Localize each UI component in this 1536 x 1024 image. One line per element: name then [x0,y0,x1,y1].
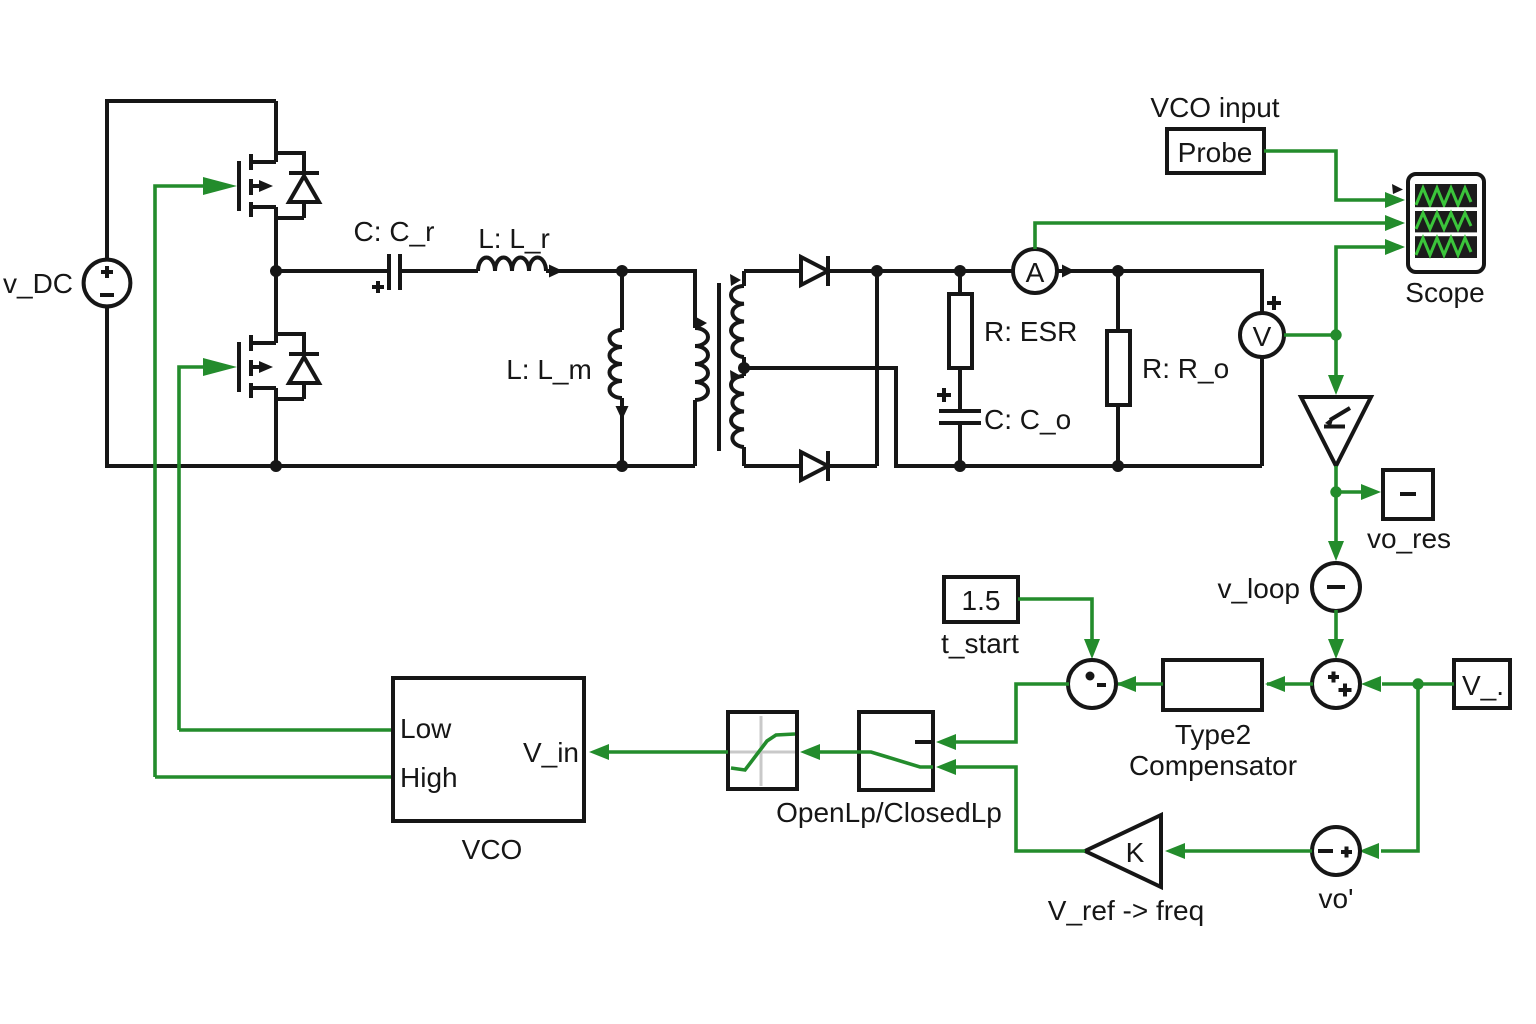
wire sum to compensator [1267,682,1313,686]
transformer secondary winding 2 [730,368,744,466]
wire gate drive low-side [179,367,207,730]
svg-text:Compensator: Compensator [1129,750,1297,781]
node rectifier output [871,265,883,277]
svg-text:C: C_r: C: C_r [354,216,435,247]
svg-text:V_in: V_in [523,737,579,768]
block vo_res display [1383,470,1433,519]
svg-text:Probe: Probe [1178,137,1253,168]
wire midpoint to C_r [276,269,387,273]
block Probe [1167,129,1264,173]
svg-text:A: A [1026,257,1045,288]
wire voltmeter node to downsample [1334,335,1338,377]
block constant V_ref [1454,660,1510,708]
wire product to switch input 1 [956,684,1069,742]
svg-text:1.5: 1.5 [962,585,1001,616]
svg-text:R: R_o: R: R_o [1142,353,1229,384]
transformer secondary winding 1 [730,271,744,368]
wire switch to saturation [820,750,859,754]
resistor R_ESR [949,271,972,409]
resistor R_o [1107,271,1130,466]
wire V_ref to sum [1382,682,1454,686]
wire voltmeter node to Scope input 3 [1336,247,1387,335]
node V_ref branch [1412,678,1423,689]
wire vo' to gain K [1185,849,1312,853]
wire v_loop to sum [1334,610,1338,641]
svg-text:K: K [1126,837,1145,868]
node bottom rail at FET2 source [270,460,282,472]
svg-text:C: C_o: C: C_o [984,404,1071,435]
ammeter A [1013,249,1118,293]
node L_m bottom [616,460,628,472]
transistor FET2 (low side) [239,271,276,466]
capacitor C_o [937,388,981,466]
svg-text:L: L_r: L: L_r [478,223,550,254]
wire bottom rail primary side [276,464,695,468]
capacitor C_r [372,254,478,293]
diode D1 (top rectifier) [744,256,1013,286]
node ESR top [954,265,966,277]
wire Probe to Scope input 1 [1264,151,1387,200]
node vo_res branch [1330,486,1341,497]
wire D2 cathode to top node [875,271,879,466]
diode body D_FET1 [276,153,319,218]
block vo' offset circle [1312,827,1360,875]
svg-text:v_DC: v_DC [3,268,73,299]
wire gate drive high-side [155,186,207,777]
node R_o top [1112,265,1124,277]
svg-text:V_.: V_. [1462,670,1504,701]
voltage source v_DC [84,101,276,466]
wire V_ref branch down to vo' [1381,684,1418,851]
block saturation [728,712,797,789]
wire ammeter to Scope input 2 [1035,223,1387,249]
wire VCO High output [155,775,393,779]
node C_o bottom [954,460,966,472]
inductor L_m [610,271,629,466]
svg-text:OpenLp/ClosedLp: OpenLp/ClosedLp [776,797,1002,828]
wire saturation to VCO V_in [609,750,728,754]
block VCO [393,678,584,821]
svg-text:V_ref -> freq: V_ref -> freq [1048,895,1204,926]
block Scope [1392,174,1484,272]
node R_o bottom [1112,460,1124,472]
wire gain K to switch input 2 [956,767,1085,851]
wire compensator to product [1118,682,1163,686]
wire VCO Low output [179,728,393,732]
svg-text:t_start: t_start [941,628,1019,659]
svg-text:R: ESR: R: ESR [984,316,1077,347]
block v_loop minus circle [1312,563,1360,611]
svg-text:VCO: VCO [462,834,523,865]
diode body D_FET2 [276,334,319,399]
block Type2 Compensator [1163,660,1262,710]
svg-text:Type2: Type2 [1175,719,1251,750]
block downsample triangle [1301,397,1371,466]
block switch OpenLp/ClosedLp [859,712,933,790]
wire downsample output [1334,466,1338,543]
node after L_r [616,265,628,277]
wire branch to vo_res [1336,490,1363,494]
block gain K [1085,815,1161,887]
svg-text:Low: Low [400,713,452,744]
inductor L_r [478,258,622,278]
block sum circle [1312,660,1360,708]
svg-text:Scope: Scope [1405,277,1484,308]
node half-bridge midpoint [270,265,282,277]
svg-text:v_loop: v_loop [1217,573,1300,604]
svg-text:VCO input: VCO input [1150,92,1279,123]
transformer primary winding [622,271,708,466]
transformer core [717,283,721,451]
diode D2 (bottom rectifier) [744,451,877,481]
svg-text:V: V [1253,321,1272,352]
wire voltmeter output [1284,333,1336,337]
voltmeter V [1240,296,1284,466]
svg-text:vo': vo' [1319,883,1354,914]
node transformer center tap [738,362,750,374]
transistor FET1 (high side) [239,101,276,271]
node voltmeter signal [1330,329,1341,340]
block product circle [1068,660,1116,708]
svg-text:vo_res: vo_res [1367,523,1451,554]
block constant 1.5 [944,577,1018,622]
wire top to voltmeter [1118,271,1262,314]
wire 1.5 to product [1018,599,1092,641]
svg-text:L: L_m: L: L_m [506,354,592,385]
wire center tap return [744,368,1262,466]
svg-text:High: High [400,762,458,793]
